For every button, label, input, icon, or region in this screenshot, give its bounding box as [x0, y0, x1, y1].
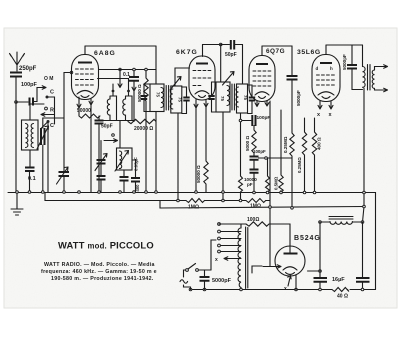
svg-text:35L6G: 35L6G — [297, 49, 321, 56]
node bus junctions — [16, 191, 316, 194]
svg-text:h: h — [330, 66, 333, 71]
svg-text:1MΩ: 1MΩ — [250, 204, 261, 210]
svg-text:d: d — [316, 66, 319, 71]
svg-text:5000 Ω: 5000 Ω — [245, 136, 250, 151]
svg-text:0.1: 0.1 — [28, 176, 36, 182]
node bottom line junctions — [189, 288, 364, 291]
IF transformer T2 secondary unit — [170, 86, 189, 114]
wire IF T3 secondary to 50pF — [242, 45, 244, 85]
node choke output — [361, 221, 364, 224]
capacitor 5000pF coupling to output — [287, 76, 302, 133]
pin 6Q7G heater drop to rectifier — [265, 101, 269, 107]
pin 6A8G cathode arrow — [77, 97, 81, 108]
band switch contact R middle — [45, 107, 54, 113]
IF transformer T2 core — [166, 86, 168, 111]
wire 6A8G plate label-box line — [85, 45, 156, 47]
capacitor 400 tracking second — [131, 160, 140, 192]
svg-text:100pF: 100pF — [21, 82, 38, 88]
svg-text:50pF: 50pF — [101, 124, 113, 130]
band switch contact C bottom — [41, 120, 54, 192]
capacitor 250pF antenna series — [10, 73, 22, 103]
capacitor padding oscillator — [97, 176, 106, 192]
svg-text:75: 75 — [220, 96, 225, 101]
resistor 1 Mohm AVC — [186, 199, 243, 211]
svg-text:50000: 50000 — [77, 108, 91, 114]
trimmer padder capacitor with arrow — [57, 73, 70, 193]
node IF T3 diode junction — [239, 119, 242, 122]
filter choke — [329, 217, 363, 225]
resistor 1 Mohm grid stopper — [241, 199, 271, 210]
oscillator coil L2 plate winding — [98, 79, 133, 121]
wire switch to selector — [211, 240, 216, 270]
pin 6Q7G diode arrow — [255, 101, 259, 107]
svg-text:6Q7G: 6Q7G — [266, 48, 285, 55]
wire AF takeoff to grid leak — [259, 157, 293, 159]
band switch contact C top — [46, 90, 55, 125]
trimmer arrow IF T3 — [223, 72, 235, 86]
IF transformer T3 secondary unit — [236, 84, 255, 114]
svg-text:100pF: 100pF — [257, 115, 271, 121]
wire IF T3 primary to 6K7G plate — [220, 45, 222, 83]
trimmer arrow IF T2 — [170, 77, 181, 91]
resistor 5000 ohm detector — [245, 126, 256, 157]
antenna — [10, 52, 25, 71]
svg-text:x: x — [215, 257, 218, 263]
capacitor 0.1 antenna coil bottom — [25, 150, 36, 192]
resistor 0.5 Mohm AF load lower — [274, 110, 284, 193]
svg-text:R: R — [50, 108, 54, 114]
svg-text:WATT mod. PICCOLO: WATT mod. PICCOLO — [58, 240, 154, 251]
node IF T3 feed — [219, 43, 222, 46]
wire heater to rectifier arrow — [252, 265, 281, 273]
resistor 0.25 Mohm grid leak — [283, 133, 294, 208]
tube 6K7G — [189, 45, 215, 101]
resistor 50000 ohm screen dropper — [137, 70, 148, 193]
svg-text:75: 75 — [243, 95, 248, 100]
band switch wiper arrow — [41, 113, 55, 117]
svg-text:C: C — [50, 123, 54, 129]
svg-text:O M: O M — [44, 76, 53, 82]
capacitor 100pF OC coupling — [16, 86, 46, 106]
svg-text:0.25MΩ: 0.25MΩ — [297, 157, 302, 173]
wire rectifier output to filter — [308, 270, 321, 272]
wire choke input lead — [320, 221, 330, 223]
wire 6Q7G plate label-box to coupling — [262, 46, 292, 75]
transformer T5 taps — [215, 230, 241, 263]
wire IF T2 primary to 6A8G plate line — [155, 46, 157, 84]
svg-text:frequenza: 460 kHz. — Gamma: 1: frequenza: 460 kHz. — Gamma: 19-50 m e — [41, 269, 157, 275]
node antenna junction — [15, 101, 18, 104]
pin 6K7G grid arrow — [204, 101, 208, 108]
svg-text:0.1: 0.1 — [123, 72, 130, 78]
svg-text:pF: pF — [247, 182, 253, 187]
capacitor 5000pF tone — [342, 45, 363, 90]
tube B524G rectifier — [275, 246, 305, 292]
resistor AF load — [266, 158, 270, 193]
IF transformer T3 primary unit — [208, 82, 230, 112]
pin 6A8G grid2 arrow down to bus — [89, 99, 93, 192]
capacitor 0.1 screen bypass — [123, 70, 139, 122]
wire antenna coil top to switch — [30, 104, 44, 120]
wire IF T2 secondary bottom AVC — [177, 114, 179, 201]
wire IF T3 secondary bottom to diode load — [240, 113, 242, 176]
node AVC line junctions — [177, 199, 242, 202]
wire IF T2 secondary to 6K7G grid — [175, 68, 190, 86]
tube 6A8G — [72, 46, 99, 100]
resistor 50000 ohm 6K7G cathode — [196, 107, 208, 192]
node choke input — [319, 221, 322, 224]
svg-text:5000pF: 5000pF — [296, 90, 301, 106]
trimmer capacitor oscillator OC — [95, 141, 107, 176]
node oscillator switch contact — [104, 134, 118, 143]
resistor 50000 cathode — [77, 108, 100, 120]
resistor diode load to AVC — [239, 176, 243, 201]
antenna coil L1 box — [22, 120, 39, 150]
svg-text:250pF: 250pF — [19, 66, 37, 72]
capacitor 5000pF mains filter — [200, 270, 232, 290]
svg-text:16µF: 16µF — [332, 277, 345, 283]
capacitor 100pF detector filter — [250, 149, 267, 169]
tuning capacitor C1 variable — [37, 118, 64, 192]
wire diode load line with capacitor 100pF — [241, 115, 271, 126]
capacitor 10000pF AF bypass — [244, 170, 259, 193]
svg-text:100Ω: 100Ω — [247, 217, 259, 223]
wire IF T3 primary bottom to AVC line — [222, 112, 224, 201]
transformer T5 autotransformer winding — [218, 223, 248, 290]
svg-text:0.5MΩ: 0.5MΩ — [274, 176, 279, 190]
svg-text:5000pF: 5000pF — [342, 54, 347, 70]
svg-text:50pF: 50pF — [225, 52, 237, 58]
wire oscillator coil bottom line — [101, 120, 134, 122]
wire 6A8G signal grid to tuned circuit — [64, 72, 72, 74]
svg-text:75: 75 — [178, 97, 183, 102]
wire oscillator grid arrow — [118, 70, 122, 88]
svg-text:400 Ω: 400 Ω — [317, 137, 322, 150]
output transformer T4 secondary with speaker arrows — [372, 65, 387, 92]
ground — [11, 192, 23, 215]
wire IF T2 primary bottom to resistor — [155, 112, 157, 193]
svg-text:50000 Ω: 50000 Ω — [196, 165, 201, 183]
switch mains — [186, 264, 211, 272]
resistor 40 ohm heater dropper — [332, 288, 349, 300]
IF transformer T2 primary unit — [141, 84, 164, 112]
tube 35L6G — [312, 45, 340, 102]
wire AVC second line — [45, 193, 186, 201]
IF transformer T3 core — [232, 84, 234, 110]
capacitor 16uF output electrolytic — [356, 222, 370, 290]
svg-text:WATT RADIO. — Mod. Piccolo. —: WATT RADIO. — Mod. Piccolo. — Media — [44, 262, 155, 268]
capacitor oscillator tracking — [120, 170, 129, 192]
capacitor 16uF input electrolytic — [314, 222, 328, 290]
svg-text:400: 400 — [135, 184, 140, 192]
tube 6Q7G — [249, 46, 275, 102]
svg-text:5000pF: 5000pF — [212, 278, 232, 284]
svg-text:0.25MΩ: 0.25MΩ — [283, 136, 288, 153]
svg-text:C: C — [50, 90, 54, 96]
wire 6A8G screen line — [99, 69, 157, 71]
oscillator coil L2 grid winding — [107, 84, 116, 121]
resistor 400 ohm cathode — [312, 118, 321, 193]
node heater junction — [269, 206, 272, 209]
resistor 0.25 Mohm bias divider — [297, 118, 307, 193]
resistor 100 ohm rectifier limiter — [219, 217, 290, 247]
wire main chassis bus — [8, 193, 376, 290]
svg-text:20000 Ω: 20000 Ω — [134, 126, 153, 132]
plug mains — [180, 270, 191, 290]
svg-text:40 Ω: 40 Ω — [337, 294, 348, 300]
wire 6K7G plate to IF T3 — [203, 44, 221, 46]
svg-text:6A8G: 6A8G — [94, 50, 116, 57]
svg-text:100pF: 100pF — [253, 149, 266, 154]
capacitor 50pF top coupling — [221, 40, 243, 58]
svg-text:6K7G: 6K7G — [176, 49, 198, 56]
capacitor 50pF oscillator grid — [95, 121, 113, 193]
wire bottom return line — [191, 289, 376, 291]
wire antenna down to bus — [15, 102, 17, 192]
wire heater line — [160, 201, 364, 209]
wire oscillator coil to padder box — [119, 121, 121, 149]
pin 6K7G cathode arrow — [194, 100, 198, 193]
resistor 20000 ohm oscillator anode — [128, 119, 156, 132]
pin rectifier cathode bottom — [295, 275, 297, 290]
svg-text:75: 75 — [156, 92, 161, 97]
svg-text:190-580 m. — Produzione 1941-1: 190-580 m. — Produzione 1941-1942. — [51, 276, 154, 282]
svg-text:B524G: B524G — [294, 235, 321, 242]
output transformer T4 primary — [363, 45, 366, 193]
output transformer T4 core — [368, 65, 371, 91]
pin 35L6G heater X arrows — [317, 101, 333, 118]
coil oscillator padder box — [115, 148, 132, 171]
wire 35L6G plate top line — [326, 44, 363, 46]
